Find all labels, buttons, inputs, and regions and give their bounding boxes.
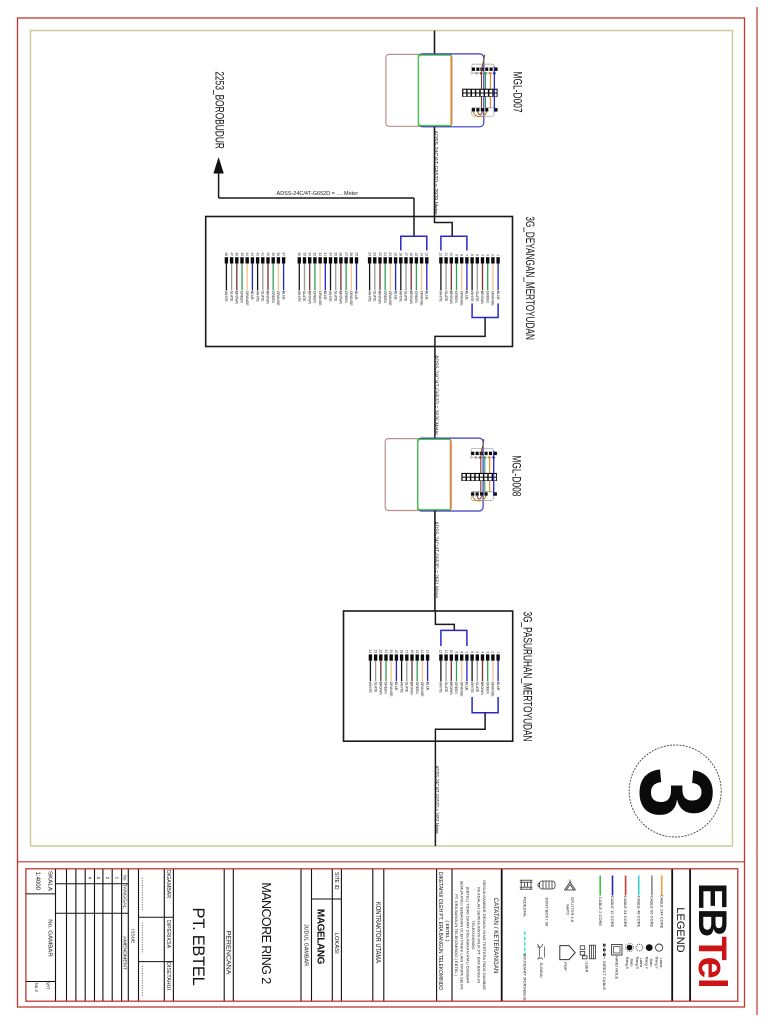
svg-text:10: 10 [449, 650, 453, 654]
svg-text:BROWN: BROWN [480, 291, 484, 305]
svg-text:No: No [122, 875, 127, 881]
svg-text:BLUE: BLUE [496, 682, 500, 692]
splice bracket B1 [401, 236, 427, 250]
svg-text:17: 17 [405, 650, 409, 654]
svg-text:Tiang 7: Tiang 7 [655, 956, 659, 969]
svg-text:13: 13 [425, 650, 429, 654]
svg-text:BROWN: BROWN [449, 682, 453, 696]
svg-text:GREEN: GREEN [485, 291, 489, 304]
symbol sungai [538, 944, 545, 960]
svg-text:5: 5 [475, 254, 479, 256]
svg-text:16: 16 [409, 252, 413, 256]
svg-text:1: 1 [496, 254, 500, 256]
svg-text:JUDUL GAMBAR: JUDUL GAMBAR [302, 924, 308, 966]
svg-text:24: 24 [368, 650, 372, 654]
svg-text:7: 7 [465, 651, 469, 653]
node arrow to 2253_BOROBUDUR [213, 157, 223, 174]
svg-text:29: 29 [334, 252, 338, 256]
svg-text:3G_DEYANGAN_MERTOYUDAN: 3G_DEYANGAN_MERTOYUDAN [523, 216, 537, 340]
symbols tiang poles [627, 945, 633, 951]
svg-text:SUNGAI: SUNGAI [539, 962, 544, 977]
svg-text:SITE ID: SITE ID [333, 872, 339, 890]
svg-text:WHITE: WHITE [368, 682, 372, 694]
svg-text:ORANGE: ORANGE [349, 291, 353, 306]
signature dotted lines [141, 878, 143, 910]
fiber tube group 13-24 [367, 252, 428, 306]
svg-text:( EBTEL ): ( EBTEL ) [444, 921, 450, 942]
svg-text:GREEN: GREEN [414, 291, 418, 304]
svg-text:32: 32 [318, 252, 322, 256]
splice bracket output Deyangan [472, 303, 498, 317]
svg-text:Tiang 9: Tiang 9 [635, 956, 639, 969]
svg-text:1: 1 [496, 651, 500, 653]
svg-text:BROWN: BROWN [307, 291, 311, 305]
svg-text:WHITE: WHITE [439, 682, 443, 694]
splice closure MGL-D008 [385, 438, 521, 511]
title block column separators [55, 869, 57, 1001]
svg-text:3G_PASURUHAN_MERTOYUDAN: 3G_PASURUHAN_MERTOYUDAN [521, 612, 535, 742]
svg-text:KONTRAKTOR UTAMA: KONTRAKTOR UTAMA [374, 902, 381, 963]
svg-text:SLATE: SLATE [333, 291, 337, 302]
closure box 3G_DEYANGAN_MERTOYUDAN [206, 217, 513, 347]
svg-text:WHITE: WHITE [255, 291, 259, 303]
svg-text:WHITE: WHITE [399, 291, 403, 303]
svg-text:ADSS-24C/4T-G652D = 2651 Meter: ADSS-24C/4T-G652D = 2651 Meter [433, 766, 439, 835]
splice bracket output Pasuruhan [472, 697, 498, 713]
splice bracket B2 [441, 236, 467, 250]
svg-text:2: 2 [491, 651, 495, 653]
svg-text:15: 15 [414, 252, 418, 256]
svg-text:46: 46 [235, 252, 239, 256]
svg-text:11: 11 [444, 253, 448, 257]
title block red border [26, 869, 738, 1001]
splice bracket P1 [441, 630, 467, 646]
svg-text:14: 14 [419, 252, 423, 256]
svg-text:21: 21 [383, 252, 387, 256]
svg-text:ORANGE: ORANGE [389, 682, 393, 697]
svg-text:WHITE: WHITE [470, 291, 474, 303]
svg-text:No. GAMBAR: No. GAMBAR [47, 919, 53, 957]
svg-text:GREEN: GREEN [454, 291, 458, 304]
svg-text:WHITE: WHITE [439, 291, 443, 303]
sheet number circle 3 [629, 745, 721, 837]
svg-text:GREEN: GREEN [485, 682, 489, 695]
svg-text:WHITE: WHITE [297, 291, 301, 303]
svg-text:6: 6 [470, 254, 474, 256]
svg-text:CABLE 24 CORE: CABLE 24 CORE [623, 896, 628, 928]
svg-text:WHITE: WHITE [399, 682, 403, 694]
svg-text:CABLE 2 CORE: CABLE 2 CORE [598, 897, 603, 926]
svg-text:EBTel: EBTel [690, 883, 734, 988]
svg-text:BROWN: BROWN [235, 291, 239, 305]
svg-text:41: 41 [261, 252, 265, 256]
svg-text:BROWN: BROWN [410, 682, 414, 696]
svg-text:36: 36 [297, 252, 301, 256]
svg-text:44: 44 [245, 252, 249, 256]
symbol direct cable [603, 944, 606, 959]
svg-text:CABLE 12 CORE: CABLE 12 CORE [610, 896, 615, 928]
svg-text:18: 18 [399, 252, 403, 256]
svg-text:BLUE: BLUE [465, 291, 469, 301]
svg-text:BROWN: BROWN [409, 291, 413, 305]
legend cable lines [599, 876, 601, 896]
svg-text:SLATE: SLATE [373, 682, 377, 693]
svg-text:37: 37 [281, 252, 285, 256]
svg-text:GREEN: GREEN [344, 291, 348, 304]
wire: branch to Borobudur [219, 197, 414, 199]
svg-text:ADSS-24C/4T-G652D = 2626 Meter: ADSS-24C/4T-G652D = 2626 Meter [432, 355, 438, 435]
svg-text:6: 6 [470, 651, 474, 653]
svg-text:No.3: No.3 [34, 983, 39, 993]
svg-text:DIRECT CABLE: DIRECT CABLE [602, 961, 607, 990]
svg-text:CABLE 48 CORE: CABLE 48 CORE [636, 896, 641, 928]
svg-text:DIGAMBAR: DIGAMBAR [165, 870, 171, 898]
svg-text:3: 3 [619, 767, 734, 818]
svg-text:12: 12 [439, 252, 443, 256]
svg-text:MANCORE RING 2: MANCORE RING 2 [259, 882, 273, 984]
svg-text:8: 8 [460, 651, 464, 653]
svg-text:5: 5 [475, 651, 479, 653]
svg-text:9: 9 [454, 254, 458, 256]
svg-text:ORANGE: ORANGE [419, 291, 423, 306]
svg-text:12: 12 [439, 650, 443, 654]
svg-text:ORANGE: ORANGE [318, 291, 322, 306]
svg-text:TANGGAL: TANGGAL [122, 884, 127, 910]
svg-text:33: 33 [313, 252, 317, 256]
svg-text:45: 45 [240, 252, 244, 256]
svg-text:SLATE: SLATE [475, 291, 479, 302]
svg-text:SLATE: SLATE [444, 682, 448, 693]
symbol pop [560, 946, 575, 960]
fiber tube group 13-24 pasuruhan [368, 650, 429, 698]
svg-text:48: 48 [224, 252, 228, 256]
svg-text:3: 3 [486, 651, 490, 653]
svg-text:34: 34 [308, 252, 312, 256]
svg-text:USER: USER [585, 961, 590, 972]
svg-text:8: 8 [460, 254, 464, 256]
svg-text:MGL-D008: MGL-D008 [509, 455, 521, 496]
symbol user [580, 945, 595, 959]
svg-text:26: 26 [349, 252, 353, 256]
svg-text:ORANGE: ORANGE [420, 682, 424, 697]
svg-text:CATATAN / KETERANGAN: CATATAN / KETERANGAN [492, 898, 499, 974]
wire: Deyangan output to MGL-D008 [435, 318, 485, 439]
svg-text:BLUE: BLUE [394, 682, 398, 692]
svg-text:SLATE: SLATE [475, 682, 479, 693]
svg-text:1:4000: 1:4000 [34, 872, 40, 891]
svg-text:39: 39 [271, 252, 275, 256]
svg-text:11: 11 [444, 650, 448, 654]
svg-text:TELEKOMINDO: TELEKOMINDO [471, 920, 476, 949]
svg-text:GREEN: GREEN [415, 682, 419, 695]
svg-text:7: 7 [465, 254, 469, 256]
svg-text:SKALA: SKALA [47, 871, 53, 892]
fiber tube group 25-36 [297, 252, 358, 306]
svg-text:Baru: Baru [629, 958, 633, 966]
symbol splitter [565, 880, 576, 891]
svg-text:BROWN: BROWN [339, 291, 343, 305]
svg-text:WHITE: WHITE [224, 291, 228, 303]
svg-text:WHITE: WHITE [367, 291, 371, 303]
svg-text:28: 28 [339, 252, 343, 256]
wire: feed inside Deyangan [435, 217, 453, 236]
svg-text:BLUE: BLUE [281, 291, 285, 301]
svg-text:31: 31 [323, 252, 327, 256]
svg-text:PEDESTAL: PEDESTAL [522, 897, 527, 918]
svg-text:ORANGE: ORANGE [491, 682, 495, 697]
svg-text:PT. EBTEL: PT. EBTEL [189, 908, 207, 986]
svg-text:47: 47 [229, 252, 233, 256]
svg-text:DIKETAHUI OLEH PT. ERA BANGUN: DIKETAHUI OLEH PT. ERA BANGUN TELEKOMIND… [437, 872, 443, 990]
svg-text:42: 42 [255, 252, 259, 256]
svg-text:10: 10 [449, 252, 453, 256]
svg-text:18: 18 [399, 650, 403, 654]
svg-text:SLATE: SLATE [444, 291, 448, 302]
svg-text:MAGELANG: MAGELANG [315, 909, 326, 965]
svg-text:SLATE: SLATE [405, 682, 409, 693]
svg-text:BLUE: BLUE [496, 291, 500, 301]
svg-text:BOUNDARY MORGEBUS: BOUNDARY MORGEBUS [522, 954, 527, 1001]
svg-text:14: 14 [420, 650, 424, 654]
wire: MGL-D007 to Deyangan closure [434, 127, 436, 217]
svg-text:SLATE: SLATE [261, 291, 265, 302]
svg-text:27: 27 [344, 252, 348, 256]
svg-text:SEMUA ATAU SEBAGIAN OLEH PIHAK: SEMUA ATAU SEBAGIAN OLEH PIHAK LAIN TANP… [460, 881, 465, 990]
svg-text:DISETAHUI: DISETAHUI [165, 962, 171, 990]
svg-text:BLUE: BLUE [354, 291, 358, 301]
svg-text:BLUE: BLUE [465, 682, 469, 692]
symbol joint box [538, 881, 555, 889]
svg-text:AMENDMENT: AMENDMENT [122, 936, 127, 971]
svg-text:ADSS-24C/4T-G652D = 2929 Meter: ADSS-24C/4T-G652D = 2929 Meter [432, 131, 438, 216]
fiber tube group 1-12 [439, 252, 500, 306]
svg-text:SLATE: SLATE [229, 291, 233, 302]
svg-text:BLUE: BLUE [393, 291, 397, 301]
wire: MGL-D008 to Pasuruhan closure [434, 511, 436, 612]
svg-text:43: 43 [250, 252, 254, 256]
svg-text:ISSUE: ISSUE [130, 929, 136, 943]
svg-text:SHT: SHT [45, 981, 50, 990]
fiber tube group 37-48 [224, 252, 285, 306]
svg-text:GREEN: GREEN [384, 682, 388, 695]
svg-text:BLUE: BLUE [323, 291, 327, 301]
svg-text:35: 35 [302, 252, 306, 256]
svg-text:GAPO: GAPO [565, 904, 570, 915]
symbol hand hole [612, 945, 622, 955]
svg-text:25: 25 [354, 252, 358, 256]
svg-text:BLUE: BLUE [425, 291, 429, 301]
svg-text:22: 22 [378, 252, 382, 256]
svg-text:BROWN: BROWN [449, 291, 453, 305]
svg-text:ORANGE: ORANGE [388, 291, 392, 306]
title block row lines [26, 893, 56, 895]
svg-text:INI ADALAH SEPENUHNYA MILIK PT: INI ADALAH SEPENUHNYA MILIK PT. ERA BANG… [477, 887, 482, 983]
svg-text:JOINT BOX / JB: JOINT BOX / JB [545, 897, 550, 926]
svg-text:BLUE: BLUE [425, 682, 429, 692]
svg-text:15: 15 [415, 650, 419, 654]
svg-text:Lama: Lama [639, 958, 643, 968]
svg-text:16: 16 [410, 650, 414, 654]
svg-text:23: 23 [373, 650, 377, 654]
svg-text:17: 17 [404, 252, 408, 256]
svg-text:13: 13 [425, 252, 429, 256]
symbol boundary [524, 932, 526, 955]
svg-text:22: 22 [379, 650, 383, 654]
svg-text:SLATE: SLATE [373, 291, 377, 302]
svg-text:Tiang 9: Tiang 9 [625, 956, 629, 969]
svg-text:38: 38 [276, 252, 280, 256]
svg-text:BROWN: BROWN [266, 291, 270, 305]
svg-text:GREEN: GREEN [383, 291, 387, 304]
svg-text:23: 23 [373, 252, 377, 256]
svg-text:20: 20 [389, 650, 393, 654]
olive drawing area border [31, 31, 733, 847]
svg-text:21: 21 [384, 650, 388, 654]
svg-text:CABLE 96 CORE: CABLE 96 CORE [650, 896, 655, 928]
svg-text:BROWN: BROWN [379, 682, 383, 696]
svg-text:4: 4 [480, 254, 484, 256]
svg-text:SLATE: SLATE [404, 291, 408, 302]
svg-text:ORANGE: ORANGE [245, 291, 249, 306]
svg-text:DIPERIKSA: DIPERIKSA [165, 920, 171, 949]
svg-text:24: 24 [367, 252, 371, 256]
svg-text:BROWN: BROWN [378, 291, 382, 305]
svg-text:(EBTEL) TIDAK DAPAT DIGUNAKAN: (EBTEL) TIDAK DAPAT DIGUNAKAN ATAU DISEB… [465, 887, 470, 984]
svg-text:20: 20 [388, 252, 392, 256]
svg-text:PERENCANA: PERENCANA [225, 931, 231, 975]
svg-text:Baru: Baru [649, 958, 653, 966]
svg-text:ORANGE: ORANGE [276, 291, 280, 306]
svg-text:40: 40 [266, 252, 270, 256]
red separator above title block [18, 861, 745, 863]
svg-text:ORANGE: ORANGE [491, 291, 495, 306]
svg-text:GREEN: GREEN [271, 291, 275, 304]
svg-text:HAND HOLE: HAND HOLE [614, 956, 619, 980]
svg-text:SLATE: SLATE [302, 291, 306, 302]
svg-text:ORANGE: ORANGE [459, 682, 463, 697]
svg-text:SEMUA GAMBAR DESAIN YANG TERTE: SEMUA GAMBAR DESAIN YANG TERTERA PADA GA… [482, 880, 487, 990]
svg-text:2: 2 [491, 254, 495, 256]
svg-text:WHITE: WHITE [328, 291, 332, 303]
svg-text:9: 9 [454, 651, 458, 653]
svg-text:BROWN: BROWN [480, 682, 484, 696]
svg-text:GREEN: GREEN [240, 291, 244, 304]
splice closure MGL-D007 [386, 54, 522, 127]
svg-text:ORANGE: ORANGE [459, 291, 463, 306]
svg-text:LOKASI: LOKASI [333, 933, 339, 954]
wire: trunk cable from top border to MGL-D007 [434, 31, 436, 55]
fiber tube group 1-12 pasuruhan [439, 650, 500, 698]
svg-text:PT. ERA BANGUN TELEKOMINDO ( E: PT. ERA BANGUN TELEKOMINDO ( EBTEL ) [454, 894, 459, 976]
symbol pedestal [520, 880, 533, 889]
wire: feed inside Pasuruhan [435, 611, 454, 630]
wire: Pasuruhan output to border [435, 713, 485, 846]
svg-text:4: 4 [480, 651, 484, 653]
svg-text:GREEN: GREEN [454, 682, 458, 695]
svg-text:Tiang 7: Tiang 7 [645, 956, 649, 969]
svg-text:WHITE: WHITE [470, 682, 474, 694]
svg-text:Lama: Lama [659, 958, 663, 968]
svg-text:GREEN: GREEN [313, 291, 317, 304]
svg-text:MGL-D007: MGL-D007 [510, 72, 522, 113]
svg-text:BLUE: BLUE [250, 291, 254, 301]
svg-text:SPLITTER 1:8: SPLITTER 1:8 [570, 897, 575, 922]
svg-text:CABLE 144 CORE: CABLE 144 CORE [659, 895, 664, 929]
svg-text:30: 30 [328, 252, 332, 256]
svg-text:ADSS-24C/4T-G652D = .... Meter: ADSS-24C/4T-G652D = .... Meter [277, 191, 359, 197]
svg-text:2253_BOROBUDUR: 2253_BOROBUDUR [212, 71, 226, 149]
svg-text:POP: POP [563, 962, 568, 971]
sheet edge crop line [756, 7, 758, 1015]
closure box 3G_PASURUHAN_MERTOYUDAN [344, 611, 513, 741]
svg-text:ADSS-24C/4T-G652D = 2651 Meter: ADSS-24C/4T-G652D = 2651 Meter [432, 522, 438, 599]
svg-text:LEGEND: LEGEND [674, 907, 686, 952]
svg-text:19: 19 [394, 650, 398, 654]
svg-text:19: 19 [393, 252, 397, 256]
svg-text:3: 3 [486, 254, 490, 256]
